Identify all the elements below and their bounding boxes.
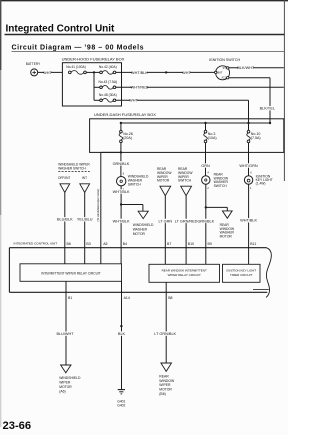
svg-text:No.42 (40A): No.42 (40A) [99,65,117,69]
windshield wiper motor arrow [59,365,81,394]
svg-text:(To windshield wiper motor): (To windshield wiper motor) [96,189,100,222]
svg-text:B1: B1 [68,296,72,300]
battery [26,62,41,76]
svg-text:MOTOR: MOTOR [59,385,72,389]
svg-text:WINDSHIELD: WINDSHIELD [133,223,154,227]
junction to windshield washer motor [120,203,122,205]
junction bus-fuse3 [204,122,206,124]
svg-text:B9: B9 [208,242,212,246]
svg-text:(A6): (A6) [59,390,65,394]
wire branch to windshield washer motor [121,205,143,212]
svg-text:B10: B10 [188,242,194,246]
svg-text:BLK/YEL: BLK/YEL [260,107,275,111]
svg-text:WHT/RED: WHT/RED [131,86,149,90]
svg-text:INT: INT [82,176,87,180]
svg-text:4: 4 [207,172,209,175]
svg-text:INTEGRATED CONTROL UNIT: INTEGRATED CONTROL UNIT [14,242,58,246]
rear window washer switch [202,172,229,191]
svg-text:WHT/BLK: WHT/BLK [113,190,130,194]
svg-text:MOTOR: MOTOR [220,234,233,238]
fuse No.41 (100A) [66,65,86,74]
svg-text:IGNITION SWITCH: IGNITION SWITCH [209,58,241,62]
svg-text:Integrated Control Unit: Integrated Control Unit [6,23,116,34]
svg-text:(1.4W): (1.4W) [256,181,266,185]
svg-text:INTERMITTENT WIPER RELAY CIRCU: INTERMITTENT WIPER RELAY CIRCUIT [41,271,101,275]
wire fuse26 output GRN/BLK [113,152,130,176]
svg-text:UNDER-HOOD FUSE/RELAY BOX: UNDER-HOOD FUSE/RELAY BOX [62,56,125,61]
svg-text:B3: B3 [86,242,90,246]
wire fuse41 to fuse42 [86,71,99,73]
svg-text:LT GRN/RED: LT GRN/RED [175,219,198,223]
svg-text:WIPER: WIPER [59,381,71,385]
wire ICU A14 ground (BLK) [118,292,126,389]
wire INT to ICU B3 (YEL/BLU) [77,193,93,264]
svg-text:YEL/BLU: YEL/BLU [77,218,93,222]
junction node after fuse 41 [93,71,95,73]
svg-text:IGNITION KEY LIGHT: IGNITION KEY LIGHT [226,269,256,273]
svg-text:(20A): (20A) [123,136,132,140]
wire branch along box bottom to ICU A5 feed [96,152,121,263]
svg-text:BAT: BAT [217,71,222,75]
svg-text:BLK/WHT: BLK/WHT [237,66,255,70]
switch contact OFF/INT [60,184,70,193]
wire branch to fuse 43 [94,86,100,88]
rear window wiper motor arrow [159,363,175,396]
wire fuse43 output WHT/RED to right edge [116,85,284,90]
windshield wiper washer switch [58,163,90,180]
junction on BLK ground wire [120,325,122,327]
svg-text:B11: B11 [250,242,256,246]
page left binding shadow [0,0,1,70]
intermittent wiper relay circuit box [20,264,122,282]
rear window wiper switch arrow [178,167,193,196]
fuse No.42 (40A) [99,65,117,74]
svg-text:WHT: WHT [129,99,138,103]
svg-text:LT GRN/BLK: LT GRN/BLK [154,332,176,336]
wire branch to fuse 48 [94,99,100,101]
svg-text:WIPER RELAY CIRCUIT: WIPER RELAY CIRCUIT [168,273,201,277]
wire ignition ST output BLK/WHT to right edge [229,66,284,71]
wire ICU B8 to rear window wiper motor (LT GRN/BLK) [154,292,176,363]
svg-text:WHT/BLK: WHT/BLK [131,71,148,75]
svg-text:(10A): (10A) [208,136,217,140]
under-hood fuse/relay box [62,56,125,106]
svg-text:WHT/BLK: WHT/BLK [240,219,257,223]
integrated control unit box [9,242,271,298]
svg-text:A5: A5 [103,242,107,246]
junction node on WHT wire [165,71,167,73]
fuse No.43 (7.5A) [98,80,117,89]
svg-text:(B6): (B6) [159,392,165,396]
svg-text:MOTOR: MOTOR [157,179,170,183]
svg-text:ST: ST [222,66,226,70]
wire ignition IG1 output BLK/YEL [229,78,275,123]
wire washer switch to ICU B4 (WHT/BLK) [113,186,130,264]
wire to ignition switch BAT (WHT) [166,70,215,75]
junction bus-WHT feed [247,122,249,124]
junction to rear window washer motor [205,206,207,208]
title rule [5,34,285,36]
svg-text:MOTOR: MOTOR [133,232,146,236]
svg-text:1: 1 [250,187,252,190]
fuse No.10 (7.5A) [247,123,261,152]
junction bus-fuse26 [120,122,122,124]
rear window washer motor arrow [220,211,235,239]
svg-text:GRN: GRN [201,164,210,168]
wire rear washer switch to ICU B9 (GRN/BLK) [197,184,214,264]
subtitle rule [12,51,285,53]
svg-text:WHT: WHT [43,71,52,75]
windshield washer motor arrow [133,211,154,236]
svg-text:(7.5A): (7.5A) [251,136,261,140]
wire ICU A14 internal [121,281,123,292]
wire ICU B8 internal [165,282,167,292]
wire branch trunk down inside under-hood box [93,72,95,100]
fuse No.3 (10A) [204,123,217,152]
wire fuse3 output GRN [201,152,210,176]
svg-text:B7: B7 [167,242,171,246]
svg-text:6: 6 [250,172,252,175]
svg-text:B8: B8 [168,296,172,300]
svg-text:SWITCH: SWITCH [214,184,228,188]
page right border line [283,0,285,181]
wire fuse10 output WHT/GRN [239,152,257,176]
svg-text:OFF/INT: OFF/INT [58,176,70,180]
rear window wiper motor arrow [157,167,172,196]
wire branch to rear washer motor [206,207,228,211]
ground G401 G402 [117,390,125,408]
junction bus-BLK/YEL feed [269,122,271,124]
svg-text:A14: A14 [124,296,130,300]
switch contact INT [80,184,90,193]
svg-text:23-66: 23-66 [3,420,32,432]
svg-text:UNDER-DASH FUSE/RELAY BOX: UNDER-DASH FUSE/RELAY BOX [94,112,156,117]
windshield washer switch [117,172,150,191]
wire ICU B1 internal [65,281,67,292]
svg-text:No.43 (7.5A): No.43 (7.5A) [98,80,117,84]
svg-text:No.48 (30A): No.48 (30A) [99,93,117,97]
svg-text:TIMER CIRCUIT: TIMER CIRCUIT [230,273,252,277]
svg-text:IG1: IG1 [222,76,227,80]
svg-text:LT GRN: LT GRN [159,219,173,223]
svg-text:BATTERY: BATTERY [26,62,41,66]
wire ICU B1 to windshield wiper motor (BLU/WHT) [56,292,74,365]
wire rear wiper switch to ICU B10 (LT GRN/RED) [175,196,198,265]
svg-text:WASHER SWITCH: WASHER SWITCH [58,167,86,171]
wire battery to under-hood box (WHT) [38,70,63,75]
fuse No.26 (20A) [119,123,133,152]
wire OFF/INT to ICU B6 (BLU/BLK) [57,193,73,264]
svg-text:No.41 (100A): No.41 (100A) [66,65,86,69]
under-dash fuse/relay box [90,112,284,152]
svg-text:6: 6 [123,172,125,175]
svg-text:WHT/BLK: WHT/BLK [113,219,130,223]
svg-text:WINDSHIELD: WINDSHIELD [59,376,81,380]
svg-text:GRN/BLK: GRN/BLK [197,219,214,223]
ignition key light timer circuit box [223,264,261,282]
svg-text:WHT: WHT [182,71,191,75]
svg-text:WASHER: WASHER [133,227,148,231]
svg-text:B4: B4 [123,242,127,246]
svg-text:G402: G402 [117,404,125,408]
svg-text:GRN/BLK: GRN/BLK [113,162,130,166]
ignition key light bulb [244,172,272,191]
svg-text:BLU/BLK: BLU/BLK [57,218,73,222]
ignition switch [209,58,241,80]
svg-text:Circuit Diagram — ’98 – 00 Mod: Circuit Diagram — ’98 – 00 Models [12,45,145,52]
svg-text:B6: B6 [67,242,71,246]
svg-text:BLK: BLK [118,332,126,336]
svg-text:SWITCH: SWITCH [128,183,142,187]
svg-text:REAR WINDOW INTERMITTENT: REAR WINDOW INTERMITTENT [162,269,207,273]
svg-text:WHT/GRN: WHT/GRN [239,164,257,168]
wire rear wiper motor to ICU B7 (LT GRN) [159,196,173,265]
wire fuse42 output WHT/BLK [116,70,166,75]
junction GRN/BLK branch at box bottom [120,151,122,153]
wire internal bus in under-dash box [121,122,270,124]
page top edge line [0,0,288,2]
rear window intermittent wiper relay circuit box [149,264,220,282]
fuse No.48 (30A) [99,93,117,102]
svg-text:SWITCH: SWITCH [178,179,192,183]
svg-text:BLU/WHT: BLU/WHT [56,332,74,336]
svg-text:2: 2 [207,187,209,190]
wire fuse48 output WHT to under-dash box [116,98,249,123]
wire key light to ICU B11 (WHT/BLK) [240,184,257,264]
